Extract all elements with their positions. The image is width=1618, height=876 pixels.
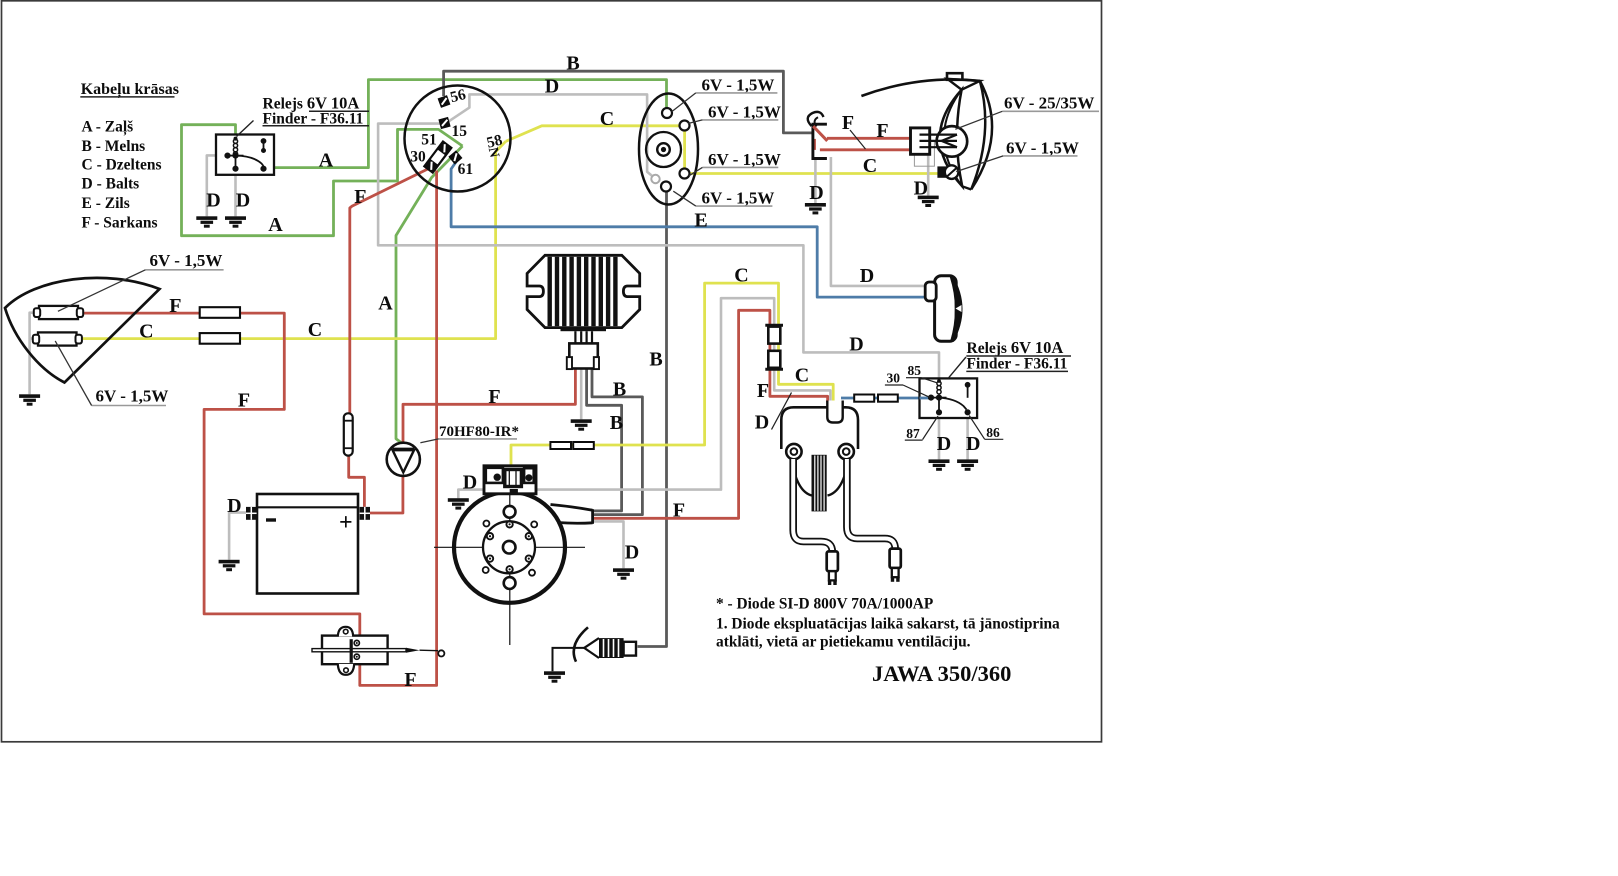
ignition coil T1 body [781,407,858,449]
svg-text:F: F [673,500,685,522]
speedometer bulb 4 [651,175,659,183]
switch terminal 30 [424,159,438,173]
svg-text:6V - 25/35W: 6V - 25/35W [1004,94,1094,113]
svg-text:JAWA 350/360: JAWA 350/360 [872,661,1011,686]
relay K1 contact arm [236,156,264,166]
diode label 70HF80-IR* [420,424,519,443]
alternator hub [503,541,516,554]
coil yoke arcs [792,460,813,496]
svg-text:C: C [308,319,322,341]
ground dimmer switch [805,203,826,214]
svg-text:A: A [319,150,334,172]
svg-text:30: 30 [410,149,426,166]
wire D gray: battery negative to ground [229,513,246,560]
tail lamp bulb A [34,306,83,319]
legend items [82,118,162,231]
svg-text:D: D [937,433,951,455]
wire F red: dimmer to headlamp upper [827,137,911,140]
svg-text:D: D [860,265,874,287]
relay K1 label text [263,94,370,128]
svg-text:D: D [914,178,928,200]
horn cone [950,276,963,342]
relay K2 terminal label 87 [905,416,938,441]
points condenser [505,470,522,487]
svg-text:30: 30 [887,371,901,386]
relay K1 coil top pin [234,137,238,141]
svg-text:6V - 1,5W: 6V - 1,5W [708,150,781,169]
coil secondary terminal left [786,444,801,459]
svg-text:C: C [139,321,153,343]
legend title Kabelu krasas [80,81,179,99]
dimmer switch lever [813,126,827,141]
svg-text:D: D [227,495,241,517]
battery G1 [257,494,358,594]
wire D gray: dimmer switch to horn [831,157,927,286]
headlamp reflector inner arc [944,90,962,187]
connector pair on E wire to relay K2 [854,395,874,402]
wire F red: dimmer to headlamp lower [820,148,911,151]
svg-text:F: F [757,380,769,402]
svg-text:Relejs 6V 10A: Relejs 6V 10A [967,338,1064,357]
svg-text:6V - 1,5W: 6V - 1,5W [96,386,169,405]
alternator outer screws [483,521,538,576]
spark plug body [599,638,624,658]
relay K2 pivot and crossbar [929,395,947,399]
svg-text:F: F [488,386,500,408]
alternator points box [484,466,536,494]
svg-text:C: C [734,265,748,287]
relay K2 leader line [948,357,966,378]
svg-text:* - Diode SI-D 800V 70A/1000AP: * - Diode SI-D 800V 70A/1000AP [716,596,933,613]
headlamp lens [971,81,992,190]
relay K1 box [216,135,274,175]
spark plug terminal [624,642,636,656]
rectifier body [527,255,640,327]
headlamp label 25/35W [955,94,1099,130]
HT lead right [847,459,895,549]
alternator bottom hole [504,577,516,589]
speedometer label 4 [673,189,774,208]
wire C yellow: speedometer internal link [683,130,686,170]
svg-text:F: F [169,295,181,317]
headlamp parking bulb [937,165,958,179]
brake switch bottom leaf [338,664,354,675]
ignition switch S1 circle [405,86,511,192]
wire A green: relay K1 contact to headlamp pilot bulb via top run [274,80,667,168]
svg-text:87: 87 [906,426,920,441]
svg-text:D - Balts: D - Balts [82,175,140,192]
wire B dark: rectifier to alternator lead inner [587,369,622,511]
svg-text:C: C [863,155,877,177]
speedometer hub [657,143,670,156]
relay K2 coil top pin [937,379,941,383]
spark plug cone [584,638,599,658]
svg-text:D: D [755,412,769,434]
speedometer bulb 2 [680,121,690,131]
brake switch screws [354,640,359,659]
wire D gray: relay K2 contact 86 to ground [966,418,969,459]
svg-text:1. Diode ekspluatācijas laikā: 1. Diode ekspluatācijas laikā sakarst, t… [716,616,1060,633]
wire E blue: switch term 61 to horn [451,162,927,298]
speedometer body [639,94,698,205]
headlamp bracket [947,73,962,80]
rectifier fins [548,257,618,326]
alternator output tube [551,505,593,524]
relay K1 leader line [237,121,254,137]
horn bracket tab [925,282,936,301]
svg-text:F: F [354,186,366,208]
headlamp label 1,5W [956,138,1079,171]
ground relay K2 86 [957,459,978,470]
ground points left [448,498,469,509]
connector tail lamp C wire [200,333,240,344]
wire A green: switch term 51 down to diode anode [396,146,463,444]
wire E blue: ignition coil terminal to relay K2 term 30 [841,397,930,400]
svg-text:D: D [625,542,639,564]
diode V1 [387,443,420,476]
brake switch center bar [350,639,353,663]
relay K1 coil [233,139,237,156]
switch terminal 61 [448,150,462,164]
relay K2 blue stub to term 30 [920,397,931,400]
headlamp lens bottom join [962,186,971,189]
points left contact [486,468,503,483]
ground relay K2 87 [929,459,950,470]
rectifier base bar [561,328,607,331]
wire C yellow: alternator points to ignition coil loop [511,283,833,466]
alternator G2 outer [454,492,565,603]
svg-text:F: F [842,112,854,134]
svg-text:+: + [339,510,353,536]
wire D gray: switch term 15 to relay K2 coil [378,124,939,379]
wire D gray: relay K1 left contact to ground [207,155,228,216]
headlamp pennant [947,79,980,90]
alternator top hole [504,506,516,518]
switch contact bar [424,141,451,172]
fuse F1 [344,413,353,455]
svg-text:D: D [463,472,477,494]
wire F red: switch term 30 to fuse to battery positive [349,168,431,507]
svg-text:D: D [206,190,220,212]
border frame [2,1,1102,742]
wire label F dimmer with leader [842,112,866,149]
rectifier pins [575,331,592,343]
speedometer bulb 5 [661,182,671,192]
wire C yellow: speedometer to headlamp parking bulb [690,172,940,175]
wire D gray: headlamp socket to ground [927,150,930,196]
headlamp main bulb [937,126,968,157]
svg-text:Kabeļu krāsas: Kabeļu krāsas [81,81,179,99]
svg-text:C: C [795,365,809,387]
svg-text:A: A [378,293,393,315]
svg-text:B: B [613,379,626,401]
svg-text:F: F [238,390,250,412]
relay K1 bottom contact [233,156,265,171]
brake switch body [322,636,388,665]
rectifier connector tabs [567,357,572,369]
wire B dark: switch term 56 to dimmer switch [444,71,812,133]
svg-text:70HF80-IR*: 70HF80-IR* [439,424,519,440]
svg-text:B - Melns: B - Melns [82,138,146,155]
wire label D coil with leader [755,393,792,434]
horn body [935,276,957,341]
tail lamp housing [5,278,160,383]
headlamp socket box [911,128,930,154]
svg-text:51: 51 [421,132,437,149]
points right contact [524,468,534,483]
svg-text:6V - 1,5W: 6V - 1,5W [150,251,223,270]
wire F red: rectifier to diode anode bus [403,369,575,443]
note text [716,596,1060,651]
svg-text:6V - 1,5W: 6V - 1,5W [702,76,775,95]
svg-text:D: D [849,334,863,356]
relay K2 right pin [966,383,970,398]
svg-text:D: D [809,182,823,204]
headlamp reflector leaf [940,90,962,187]
svg-text:6V - 1,5W: 6V - 1,5W [702,189,775,208]
connector pair on C wire near alternator [550,442,571,449]
wire F red: battery positive to diode cathode [370,477,403,514]
svg-text:B: B [566,53,579,75]
headlamp filaments [920,135,958,148]
spark boot right [890,549,901,582]
bundle connector lower [765,351,783,370]
svg-text:F: F [876,120,888,142]
battery positive bolt [360,507,370,520]
dimmer switch hooks [808,112,824,126]
relay K2 label text [966,338,1071,373]
ground battery [219,560,240,571]
ground headlamp [918,196,939,207]
wire D gray: relay K1 bottom contact to ground [234,175,237,217]
svg-text:Finder - F36.11: Finder - F36.11 [967,356,1068,373]
svg-text:A - Zaļš: A - Zaļš [82,118,134,135]
wire D gray: alternator points left to ground [458,490,484,499]
tail lamp label bottom [55,341,168,406]
dimmer switch bracket [813,124,827,158]
relay K2 terminal label 85 [906,363,938,383]
wire C yellow: switch term 58 to speedometer bulb [506,126,680,142]
wire A green: relay K1 coil loop to ignition switch term 51 [182,125,463,236]
switch terminal 56 [438,95,451,108]
alternator crosshair [434,486,585,645]
wire D gray: dimmer switch to ground [814,157,817,203]
svg-text:E: E [694,210,707,232]
svg-text:D: D [236,190,250,212]
relay K2 box [920,378,978,418]
relay K2 bottom contacts [937,398,970,415]
svg-text:15: 15 [452,123,468,140]
coil primary winding [812,455,827,512]
wire F red: dimmer lever link [814,139,816,150]
spark plug ground electrode [553,648,585,671]
switch terminal 51 [437,141,451,155]
HT lead left [793,459,832,552]
wire D gray: rectifier pin to ground [580,369,583,420]
relay K2 terminal label 30 [885,371,930,398]
speedometer label 1 [672,76,778,112]
brake switch top leaf [338,627,353,637]
svg-text:86: 86 [986,425,1000,440]
switch terminal 15 [438,117,450,129]
svg-text:C - Dzeltens: C - Dzeltens [82,156,162,173]
wire C yellow: tail lamp bulb to switch term 58 [83,141,506,338]
bundle connector upper [765,325,783,343]
svg-text:C: C [600,108,614,130]
connector tail lamp F wire [200,307,240,318]
wire D gray: alternator points to ignition coil loop [536,298,830,489]
ground rectifier [571,419,592,430]
ground spark plug [544,671,565,682]
wire D gray: switch term 15 to speedometer bulb [449,94,654,177]
svg-text:D: D [545,76,559,98]
svg-text:F: F [404,669,416,691]
svg-text:6V - 1,5W: 6V - 1,5W [708,103,781,122]
battery minus sign [266,518,276,521]
spark plug arc electrode [574,627,588,661]
headlamp top swoop [861,79,980,96]
wire F red: tail lamp - brake switch - switch term 30 loop [83,171,437,686]
svg-text:B: B [649,349,662,371]
svg-text:6V - 1,5W: 6V - 1,5W [1006,138,1079,157]
svg-text:atklāti, vietā ar pietiekamu v: atklāti, vietā ar pietiekamu ventilāciju… [716,634,971,651]
coil secondary terminal right [839,444,854,459]
speedometer label 2 [688,103,781,124]
relay K2 coil [937,381,941,394]
svg-text:E - Zils: E - Zils [82,195,130,212]
wire B dark: speedometer bulb to spark plug [638,192,667,647]
wire D gray: relay K2 contact 87 to ground [938,418,941,459]
svg-text:85: 85 [908,363,922,378]
wire F red: alternator lead to ignition coil loop [594,310,828,518]
wire B dark: rectifier to alternator lead outer [592,369,642,515]
coil terminal tab [827,401,842,423]
speedometer dial [646,132,681,167]
relay K1 pivot and crossbar [225,153,243,157]
battery negative bolt [246,507,257,520]
alternator inner circle [483,521,535,573]
svg-text:61: 61 [458,161,474,178]
svg-text:D: D [966,433,980,455]
ground relay K1 right [225,216,246,227]
alternator inner screws [487,521,532,572]
svg-text:B: B [610,412,623,434]
rectifier connector [569,343,598,368]
points lower stub [510,489,518,494]
tail lamp bulb B [33,332,82,345]
tail lamp label top [58,251,224,312]
spark boot left [827,551,838,585]
wire D gray: alternator lead to ground [594,521,624,568]
ground tail lamp [19,394,40,405]
svg-text:A: A [268,214,283,236]
brake switch rod [312,649,406,652]
headlamp socket thin frame [914,141,934,167]
speedometer bulb 3 [680,169,690,179]
horn cone notch [956,305,962,312]
svg-text:Finder - F36.11: Finder - F36.11 [263,110,364,127]
ground relay K1 left [196,216,217,227]
wire D gray: tail lamp bulbs to ground [30,313,39,395]
speedometer label 3 [689,150,781,176]
ground alternator lead [613,568,634,579]
relay K2 contact arm [939,398,967,410]
brake switch needle [406,648,444,657]
relay K2 terminal label 86 [969,416,1003,441]
svg-text:F - Sarkans: F - Sarkans [82,214,158,231]
relay K1 right pin [262,139,266,152]
speedometer bulb 1 [662,108,672,118]
